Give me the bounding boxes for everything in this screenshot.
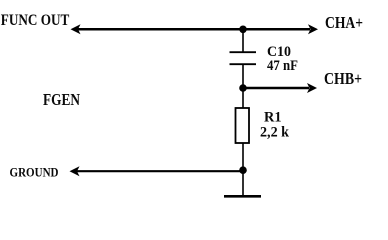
arrowhead right CHB+ bbox=[307, 83, 317, 93]
arrowhead left FUNC OUT bbox=[71, 24, 81, 34]
resistor R1 bbox=[236, 108, 250, 143]
wire junction top to capacitor bbox=[242, 29, 244, 52]
wire junction to ground symbol bbox=[242, 170, 244, 195]
wire CHB+ arrow line bbox=[243, 87, 309, 89]
svg-text:R1: R1 bbox=[264, 110, 282, 126]
arrowhead left GROUND bbox=[70, 166, 80, 176]
wire junction CHB to resistor bbox=[242, 88, 244, 108]
svg-text:47 nF: 47 nF bbox=[267, 58, 298, 74]
svg-text:CHB+: CHB+ bbox=[324, 69, 362, 88]
svg-text:CHA+: CHA+ bbox=[325, 13, 363, 32]
node junction top bbox=[239, 26, 247, 34]
svg-text:GROUND: GROUND bbox=[10, 166, 59, 180]
node junction CHB bbox=[239, 84, 247, 92]
svg-text:FGEN: FGEN bbox=[43, 90, 80, 109]
wire capacitor to junction CHB bbox=[242, 64, 244, 88]
wire resistor to junction ground bbox=[242, 143, 244, 170]
svg-text:FUNC OUT: FUNC OUT bbox=[1, 12, 70, 29]
wire top horizontal FUNC OUT to CHA+ bbox=[78, 28, 310, 31]
capacitor C10 bbox=[230, 52, 257, 64]
node junction ground bbox=[239, 166, 247, 174]
svg-text:2,2 k: 2,2 k bbox=[260, 124, 290, 140]
ground bbox=[224, 195, 261, 198]
arrowhead right CHA+ bbox=[308, 24, 318, 34]
wire GROUND arrow line bbox=[77, 170, 243, 172]
